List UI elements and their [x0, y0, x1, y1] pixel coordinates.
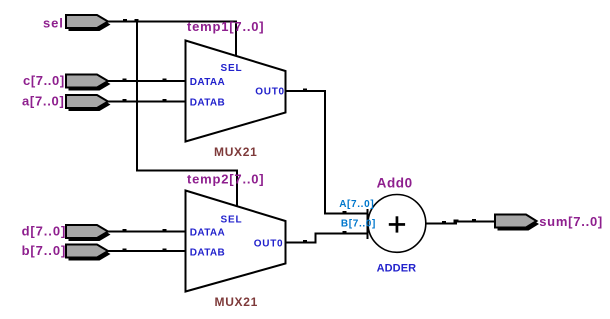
input pin c[7..0]	[66, 75, 111, 91]
adder U3 plus sign horizontal	[389, 223, 405, 226]
svg-text:DATAB: DATAB	[190, 97, 225, 108]
svg-text:MUX21: MUX21	[215, 295, 259, 309]
output pin sum[7..0]	[495, 215, 539, 231]
junction on d wire 2	[163, 229, 167, 232]
svg-text:Add0: Add0	[377, 175, 413, 190]
svg-text:OUT0: OUT0	[254, 239, 283, 250]
junction on d wire	[123, 229, 127, 232]
svg-text:temp2[7..0]: temp2[7..0]	[187, 172, 264, 187]
svg-text:temp1[7..0]: temp1[7..0]	[187, 19, 264, 34]
junction on temp1 wire	[303, 89, 307, 92]
junction on a wire 2	[163, 99, 167, 102]
adder U3 body circle	[368, 195, 426, 253]
input pin d[7..0]	[66, 225, 111, 241]
input pin a[7..0]	[66, 95, 111, 111]
junction on b wire	[123, 249, 127, 252]
svg-text:SEL: SEL	[221, 215, 243, 226]
wire U1 OUT0 to adder A	[286, 91, 368, 214]
mux U2 MUX21 body	[186, 191, 286, 292]
junction on sum wire 3	[472, 219, 476, 222]
svg-text:d[7..0]: d[7..0]	[22, 224, 67, 239]
wire adder OUT to sum pin	[426, 222, 495, 224]
svg-text:a[7..0]: a[7..0]	[22, 94, 64, 109]
junction sel branch	[135, 19, 139, 22]
svg-text:MUX21: MUX21	[214, 145, 258, 159]
junction on sel wire	[123, 19, 127, 22]
svg-text:DATAA: DATAA	[190, 77, 225, 88]
junction on temp2 wire	[303, 240, 307, 243]
junction on b wire 2	[163, 249, 167, 252]
junction on sum wire step	[454, 220, 459, 223]
svg-text:SEL: SEL	[221, 63, 243, 74]
svg-text:B[7..0]: B[7..0]	[341, 219, 376, 230]
svg-text:c[7..0]: c[7..0]	[23, 73, 65, 88]
wire c to U1 DATAA	[108, 80, 186, 82]
svg-text:DATAB: DATAB	[190, 247, 225, 258]
wire d to U2 DATAA	[108, 231, 186, 233]
svg-text:ADDER: ADDER	[377, 263, 417, 275]
wire U2 OUT0 to adder B	[286, 234, 368, 243]
junction on a wire	[123, 99, 127, 102]
svg-text:sum[7..0]: sum[7..0]	[539, 214, 603, 229]
svg-text:b[7..0]: b[7..0]	[22, 243, 67, 258]
junction on adder A wire	[343, 211, 347, 214]
wire sel branch to U2 SEL	[137, 22, 237, 208]
svg-text:A[7..0]: A[7..0]	[339, 199, 374, 210]
junction on adder B wire	[343, 231, 347, 234]
adder U3 input stub	[367, 209, 369, 239]
junction on c wire	[123, 79, 127, 82]
svg-text:OUT0: OUT0	[255, 86, 284, 97]
adder U3 plus sign vertical	[396, 216, 399, 232]
wire b to U2 DATAB	[108, 250, 186, 252]
input pin sel	[66, 15, 111, 31]
junction on c wire 2	[163, 79, 167, 82]
mux U1 MUX21 body	[186, 41, 286, 142]
input pin b[7..0]	[66, 245, 111, 261]
svg-text:sel: sel	[43, 15, 64, 30]
svg-text:DATAA: DATAA	[190, 228, 225, 239]
junction on sum wire	[442, 221, 446, 224]
wire a to U1 DATAB	[108, 101, 186, 103]
wire sel to U1 SEL	[108, 22, 236, 58]
